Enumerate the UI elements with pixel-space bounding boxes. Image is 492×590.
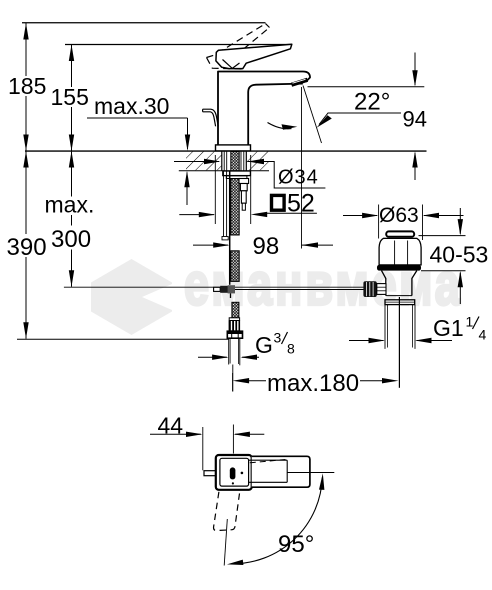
dimension O34 leader and text <box>248 162 326 189</box>
dimension square52 symbol <box>272 195 285 210</box>
pop-up rod horizontal reference line <box>64 286 364 288</box>
faucet lever notch <box>223 60 240 69</box>
reference line lever tip <box>65 44 292 46</box>
rod coupling end piece <box>214 287 221 291</box>
faucet dashed raised lever <box>207 24 270 69</box>
svg-text:94: 94 <box>403 107 427 132</box>
hose collar <box>229 318 239 321</box>
hose ribbed nut <box>229 321 241 331</box>
braided hose lower section <box>231 251 239 282</box>
stream vertical reference line <box>301 87 303 249</box>
drain flange inner stem lines <box>394 241 396 265</box>
svg-text:G: G <box>255 332 273 358</box>
dimension 94 line <box>414 53 416 86</box>
aerator at spout tip <box>292 80 308 85</box>
dimension O34 arrows <box>174 161 219 163</box>
dimension 98 <box>193 244 228 246</box>
reference line top (raised lever height) <box>22 22 266 24</box>
svg-text:185: 185 <box>8 73 46 99</box>
dimension G3/8 arrows <box>198 356 227 358</box>
svg-text:8: 8 <box>287 341 295 357</box>
svg-text:95°: 95° <box>278 531 314 558</box>
svg-text:max.180: max.180 <box>267 370 359 397</box>
svg-text:390: 390 <box>7 234 47 261</box>
drain flange body <box>379 238 421 265</box>
svg-text:Ø63: Ø63 <box>379 204 419 227</box>
svg-text:3: 3 <box>274 330 282 346</box>
right connector stack <box>239 179 249 184</box>
svg-text:1: 1 <box>466 314 474 330</box>
plan dots <box>241 472 244 475</box>
dimension max.30 lower stub arrow <box>186 173 188 206</box>
drain pop-up plug cap <box>386 231 414 236</box>
dimension max.300 line <box>71 151 73 287</box>
svg-text:155: 155 <box>51 84 89 110</box>
mounting hole walls in countertop <box>221 151 223 171</box>
plan lever dashed hidden edge <box>250 460 286 463</box>
svg-text:max.30: max.30 <box>94 93 169 119</box>
countertop hatching left of hole <box>186 152 222 171</box>
dimension 155 line <box>71 45 73 152</box>
square52 right arrow <box>251 212 268 217</box>
plan cartridge slot <box>230 467 236 479</box>
svg-text:Ø34: Ø34 <box>278 167 319 189</box>
dimension 390 arrows <box>23 151 28 168</box>
plan dimension 44 left arrow <box>150 433 201 435</box>
hose hex end nut <box>227 331 242 338</box>
faucet base plate <box>216 145 251 151</box>
drain tailpipe <box>384 305 386 349</box>
square52 extension lines <box>214 155 216 224</box>
plan centerline <box>287 472 334 474</box>
dimension max.30 leader <box>87 117 188 119</box>
dimension 390 line <box>25 151 27 339</box>
plan 44 extension lines <box>202 427 204 470</box>
mounting nut below countertop <box>223 171 251 176</box>
countertop top line <box>25 150 427 152</box>
plan swung lever dashed <box>214 491 240 530</box>
threaded shank braided section upper <box>231 152 239 236</box>
svg-text:98: 98 <box>253 233 280 260</box>
plan body square inner <box>220 458 249 486</box>
drain dimension O63 extension lines <box>378 205 380 239</box>
stream angled line <box>303 86 322 144</box>
svg-text:40-53: 40-53 <box>430 242 489 268</box>
spout height reference line <box>308 86 425 88</box>
svg-text:22°: 22° <box>354 89 390 116</box>
svg-text:G1: G1 <box>433 315 464 341</box>
watermark logo hexagon <box>91 259 172 335</box>
square52 left arrow <box>179 214 214 216</box>
drain dimension O63 arrows <box>343 215 377 217</box>
plan 95 deg arc <box>232 478 323 564</box>
plan lever inner lines <box>249 459 288 461</box>
plan swung lever centerline <box>224 519 227 566</box>
svg-text:max.: max. <box>45 192 95 218</box>
pipe centerline <box>232 365 234 392</box>
dimension 22 deg leader <box>319 113 401 125</box>
dimension square52 underline <box>267 212 317 214</box>
pop-up rod knob on faucet left <box>203 109 219 126</box>
dimension 155 arrows <box>69 45 74 62</box>
rod coupling block <box>220 286 235 293</box>
drain body below seal <box>382 271 417 296</box>
countertop bottom line <box>179 170 269 172</box>
watermark text <box>184 252 463 319</box>
drain knob stem <box>377 284 386 295</box>
drain lower ring <box>385 300 415 305</box>
dimension G1 1/4 arrows <box>349 340 384 342</box>
drain knurled knob <box>363 281 376 297</box>
drain seal band <box>377 265 421 271</box>
flow arc arrow under spout <box>268 123 292 129</box>
max.180 centerline ticks <box>232 373 234 392</box>
drain dimension 40-53 lines <box>419 235 466 237</box>
pull rod <box>229 171 231 285</box>
dimension 185 line <box>25 23 27 151</box>
plan body square outer <box>216 455 252 490</box>
dimension 185 arrows <box>23 23 28 40</box>
supply hoses inside hole <box>223 151 225 171</box>
dimension max.180 <box>233 378 250 383</box>
svg-text:300: 300 <box>51 226 91 253</box>
faucet body and spout <box>218 72 310 145</box>
plan pull rod tab <box>204 471 219 476</box>
countertop hatching right of hole <box>246 152 269 171</box>
plan lever outer <box>252 456 310 487</box>
dimension max.300 arrows <box>69 151 74 168</box>
G3/8 pipe <box>228 338 230 364</box>
svg-text:4: 4 <box>479 327 487 343</box>
reference line at pipe end (390 dim) <box>17 338 229 340</box>
plan dimension 44 right arrow <box>235 433 264 435</box>
faucet lever solid <box>216 44 292 68</box>
drain centerline <box>398 297 400 388</box>
left thin tube <box>223 171 225 237</box>
